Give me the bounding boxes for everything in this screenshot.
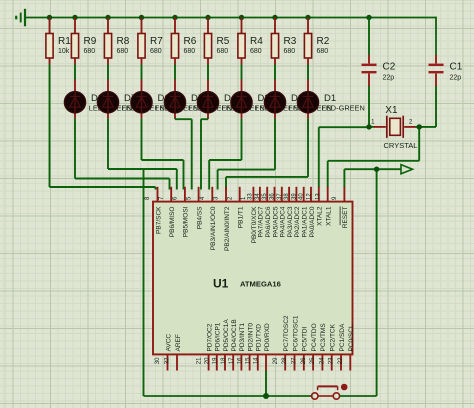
svg-text:PD4/OC1B: PD4/OC1B [231,319,238,351]
svg-text:PD1/TXD: PD1/TXD [256,324,263,352]
resistor R8 (680) [104,18,129,65]
wire: D6 to PB4 [142,119,184,190]
node: junction at C2 / X1 pin1 [366,124,371,129]
resistor R2 (680) [304,18,329,65]
node: rail junction at R4 [239,15,244,20]
svg-text:PB2/AIN0/INT2: PB2/AIN0/INT2 [224,206,231,251]
wire: C2 / X1 pin1 / XTAL2 net [319,127,374,188]
wire: R5 to D4 [207,65,209,80]
svg-text:40: 40 [299,193,305,200]
U1 top pin 33 (PA7/ADC7) [248,187,265,238]
svg-text:PA0/ADC0: PA0/ADC0 [309,206,316,237]
svg-text:AVCC: AVCC [165,334,172,352]
U1 bottom pin 25 (PC3/TMS) [310,323,327,371]
U1 bottom pin 23 (PC1/SDA) [329,323,346,370]
svg-text:R6: R6 [184,36,197,47]
microcontroller U1 (ATMEGA16) body [153,202,353,355]
U1 bottom pin 21 (PD7/OC2) [196,323,213,370]
node: rail junction at R7 [139,15,144,20]
U1 top pin 36 (PA4/ADC4) [270,187,287,238]
resistor R7 (680) [138,18,163,65]
svg-text:22p: 22p [383,75,395,82]
svg-text:17: 17 [229,357,235,364]
wire: D7 to PB5 [108,119,177,190]
svg-text:C1: C1 [450,62,463,73]
LED D5 (LED-GREEN) [164,80,231,119]
svg-text:PC0/SCL: PC0/SCL [348,324,355,351]
svg-text:36: 36 [270,193,276,200]
wire: C1 / X1 pin2 / XTAL1 net [328,127,436,188]
svg-text:19: 19 [213,357,219,364]
resistor R6 (680) [171,18,196,65]
U1 top pin 13 (XTAL1) [315,187,332,226]
ground terminal (rotated ground symbol at VCC rail left end) [16,9,25,27]
U1 top pin 38 (PA2/ADC2) [284,187,301,238]
svg-text:PD7/OC2: PD7/OC2 [206,323,213,351]
svg-text:22p: 22p [450,75,462,82]
LED D3 (LED-GREEN) [231,80,298,119]
svg-text:PD0/RXD: PD0/RXD [264,323,271,351]
svg-text:8: 8 [145,196,151,200]
U1 bottom pin 15 (PD1/TXD) [246,324,263,371]
U1 bottom pin 24 (PC2/TCK) [319,323,336,370]
wire: R3 to D2 [274,65,276,80]
node: rail junction at R2 [305,15,310,20]
LED D1 (LED-GREEN) [297,80,364,119]
U1 bottom pin 19 (PD5/OC1A) [213,319,230,371]
svg-text:XTAL1: XTAL1 [326,206,333,226]
terminal: default terminal arrow on RESET net [401,165,413,174]
svg-text:680: 680 [150,48,162,55]
capacitor C2 (22p) [362,18,396,128]
crystal X1 [371,105,417,150]
svg-text:2: 2 [227,196,233,200]
svg-text:25: 25 [310,357,316,364]
svg-text:34: 34 [255,193,261,200]
capacitor C1 (22p) [429,17,463,127]
node: junction on RESET net [374,167,379,172]
svg-text:680: 680 [317,48,329,55]
U1 top pin 2 (PB1/T1) [227,187,244,228]
U1 top pin 4 (PB3/AIN1/OC0) [200,187,217,250]
svg-text:PC5/TDI: PC5/TDI [302,326,309,351]
U1 top pin 3 (PB2/AIN0/INT2) [214,187,231,251]
U1 bottom pin 27 (PC5/TDI) [292,326,309,370]
svg-text:R9: R9 [84,36,97,47]
svg-text:38: 38 [284,193,290,200]
svg-text:PC3/TMS: PC3/TMS [320,323,327,352]
U1 top pin 1 (PB0/T0/XCK) [241,187,258,244]
LED D7 (LED-GREEN) [97,80,164,119]
svg-text:C2: C2 [383,62,396,73]
U1 bottom pin 16 (PD2/INT0) [237,323,254,371]
U1 bottom pin 22 (PC0/SCL) [338,324,355,370]
svg-text:PA6/ADC6: PA6/ADC6 [265,206,272,237]
wire: R9 to D8 [74,65,76,80]
svg-text:PC1/SDA: PC1/SDA [339,323,346,351]
node: rail junction at C2 [366,15,371,20]
wire: D4 to PB (jog left) [201,119,208,190]
svg-text:PB5/MOSI: PB5/MOSI [183,206,190,237]
wire: D3 to PB3 [209,119,241,190]
svg-text:PD6/ICP1: PD6/ICP1 [215,322,222,351]
U1 bottom pin 18 (PD4/OC1B) [221,319,238,370]
svg-text:680: 680 [184,48,196,55]
svg-text:PD3/INT1: PD3/INT1 [239,323,246,352]
node: rail junction at R1 [47,15,52,20]
svg-text:32: 32 [165,357,171,364]
svg-text:33: 33 [248,193,254,200]
svg-text:9: 9 [332,196,338,200]
U1 bottom pin 28 (PC6/TOSC1) [282,315,299,370]
node: rail junction at R6 [172,15,177,20]
svg-text:15: 15 [246,357,252,364]
svg-text:R8: R8 [117,36,130,47]
wire: D2 to PB2 [218,119,275,190]
svg-text:PC6/TOSC1: PC6/TOSC1 [292,315,299,351]
svg-text:PB1/T1: PB1/T1 [238,206,245,228]
U1 top pin 7 (PB6/MISO) [159,187,176,237]
svg-text:680: 680 [284,48,296,55]
LED D6 (LED-GREEN) [131,80,198,119]
U1 bottom pin 14 (PD0/RXD) [254,323,271,370]
svg-text:PD5/OC1A: PD5/OC1A [223,319,230,352]
svg-text:680: 680 [84,48,96,55]
svg-text:39: 39 [291,193,297,200]
wire: R1 to PB7 [50,65,156,190]
svg-text:2: 2 [409,120,413,126]
svg-text:28: 28 [282,357,288,364]
U1 bottom pin 26 (PC4/TDO) [301,323,318,370]
resistor R5 (680) [204,18,229,65]
svg-text:R3: R3 [284,36,297,47]
U1 bottom pin 32 (AREF) [165,334,182,370]
svg-text:27: 27 [292,357,298,364]
svg-text:1: 1 [241,196,247,200]
U1 bottom pin 30 (AVCC) [155,334,172,371]
wire: R6 to D5 [174,65,176,80]
svg-text:3: 3 [214,196,220,200]
svg-text:680: 680 [117,48,129,55]
wire: top supply rail [25,17,436,19]
svg-text:PA7/ADC7: PA7/ADC7 [258,206,265,237]
svg-text:R2: R2 [317,36,330,47]
node: junction pin14 / bottom rail [263,393,269,399]
svg-text:D1: D1 [324,93,336,104]
U1 bottom pin 29 (PC7/TOSC2) [273,315,290,370]
svg-text:4: 4 [200,196,206,200]
wire: D5 to PB (jog right) [175,119,192,190]
svg-text:PC2/TCK: PC2/TCK [330,323,337,351]
node: rail junction at R8 [105,15,110,20]
svg-text:PC4/TDO: PC4/TDO [311,323,318,351]
svg-text:6: 6 [173,196,179,200]
svg-text:7: 7 [159,196,165,200]
svg-text:PA5/ADC5: PA5/ADC5 [272,206,279,237]
svg-text:13: 13 [315,193,321,200]
U1 top pin 12 (XTAL2) [307,187,324,226]
svg-text:RESET: RESET [342,206,349,228]
svg-text:PD2/INT0: PD2/INT0 [247,323,254,352]
wire: R8 to D7 [107,65,109,80]
svg-text:16: 16 [237,357,243,364]
U1 top pin 37 (PA3/ADC3) [277,187,294,238]
U1 top pin 8 (PB7/SCK) [145,187,162,234]
wire: bottom rail (left riser) [144,169,312,396]
svg-text:10k: 10k [58,48,70,55]
svg-text:24: 24 [319,357,325,364]
svg-text:XTAL2: XTAL2 [317,206,324,226]
U1 top pin 35 (PA5/ADC5) [262,187,279,238]
U1 top pin 39 (PA1/ADC1) [291,187,308,238]
svg-text:PB4/SS: PB4/SS [196,206,203,229]
svg-text:26: 26 [301,357,307,364]
svg-text:ATMEGA16: ATMEGA16 [240,280,281,289]
resistor R9 (680) [71,18,96,65]
U1 bottom pin 20 (PD6/ICP1) [205,322,222,370]
svg-text:5: 5 [186,196,192,200]
node: rail junction at R5 [205,15,210,20]
svg-text:R5: R5 [217,36,230,47]
svg-text:680: 680 [217,48,229,55]
U1 top pin 9 (RESET) [332,187,349,228]
wire: RESET net to terminal and button [344,169,401,396]
svg-text:35: 35 [262,193,268,200]
svg-text:22: 22 [338,357,344,364]
svg-text:AREF: AREF [175,334,182,351]
svg-text:12: 12 [307,193,313,200]
svg-text:X1: X1 [385,105,398,116]
svg-text:PC7/TOSC2: PC7/TOSC2 [283,315,290,351]
wire: D1 to PB1 [226,119,308,190]
U1 bottom pin 17 (PD3/INT1) [229,323,246,371]
svg-text:29: 29 [273,357,279,364]
wire: U1 pin 14 to bottom rail [265,371,267,397]
LED D4 (LED-GREEN) [197,80,264,119]
svg-text:680: 680 [250,48,262,55]
svg-text:U1: U1 [213,277,229,291]
svg-text:R7: R7 [150,36,163,47]
push button (reset) [312,384,348,399]
svg-text:PA3/ADC3: PA3/ADC3 [287,206,294,237]
wire: D8 to PB6 [75,119,170,190]
svg-text:LED-GREEN: LED-GREEN [322,106,365,113]
wire: R4 to D3 [241,65,243,80]
wire: R7 to D6 [141,65,143,80]
svg-text:PA4/ADC4: PA4/ADC4 [280,206,287,237]
resistor R4 (680) [238,18,263,65]
node: rail junction at R3 [272,15,277,20]
resistor R3 (680) [271,18,296,65]
wire: button to RESET riser [340,395,377,397]
U1 top pin 5 (PB4/SS) [186,187,203,229]
svg-text:30: 30 [155,357,161,364]
svg-text:PB3/AIN1/OC0: PB3/AIN1/OC0 [210,206,217,250]
resistor R1 (10k) [46,18,71,65]
svg-text:23: 23 [329,357,335,364]
U1 top pin 34 (PA6/ADC6) [255,187,272,238]
svg-text:PB7/SCK: PB7/SCK [155,206,162,234]
U1 top pin 40 (PA0/ADC0) [299,187,316,238]
node: rail junction at R9 [72,15,77,20]
U1 top pin 6 (PB5/MOSI) [173,187,190,237]
LED D2 (LED-GREEN) [264,80,331,119]
svg-text:14: 14 [254,357,260,364]
svg-text:CRYSTAL: CRYSTAL [384,141,418,150]
svg-text:R4: R4 [250,36,263,47]
svg-text:20: 20 [205,357,211,364]
svg-text:PA1/ADC1: PA1/ADC1 [302,206,309,237]
svg-text:R1: R1 [58,36,71,47]
node: junction at X1 pin2 [417,124,422,129]
svg-text:37: 37 [277,193,283,200]
LED D8 (LED-GREEN) [64,80,131,119]
svg-text:21: 21 [196,357,202,364]
svg-text:1: 1 [371,120,375,126]
svg-text:PB6/MISO: PB6/MISO [169,207,176,238]
svg-text:PA2/ADC2: PA2/ADC2 [294,206,301,237]
svg-text:18: 18 [221,357,227,364]
wire: R2 to D1 [307,65,309,80]
